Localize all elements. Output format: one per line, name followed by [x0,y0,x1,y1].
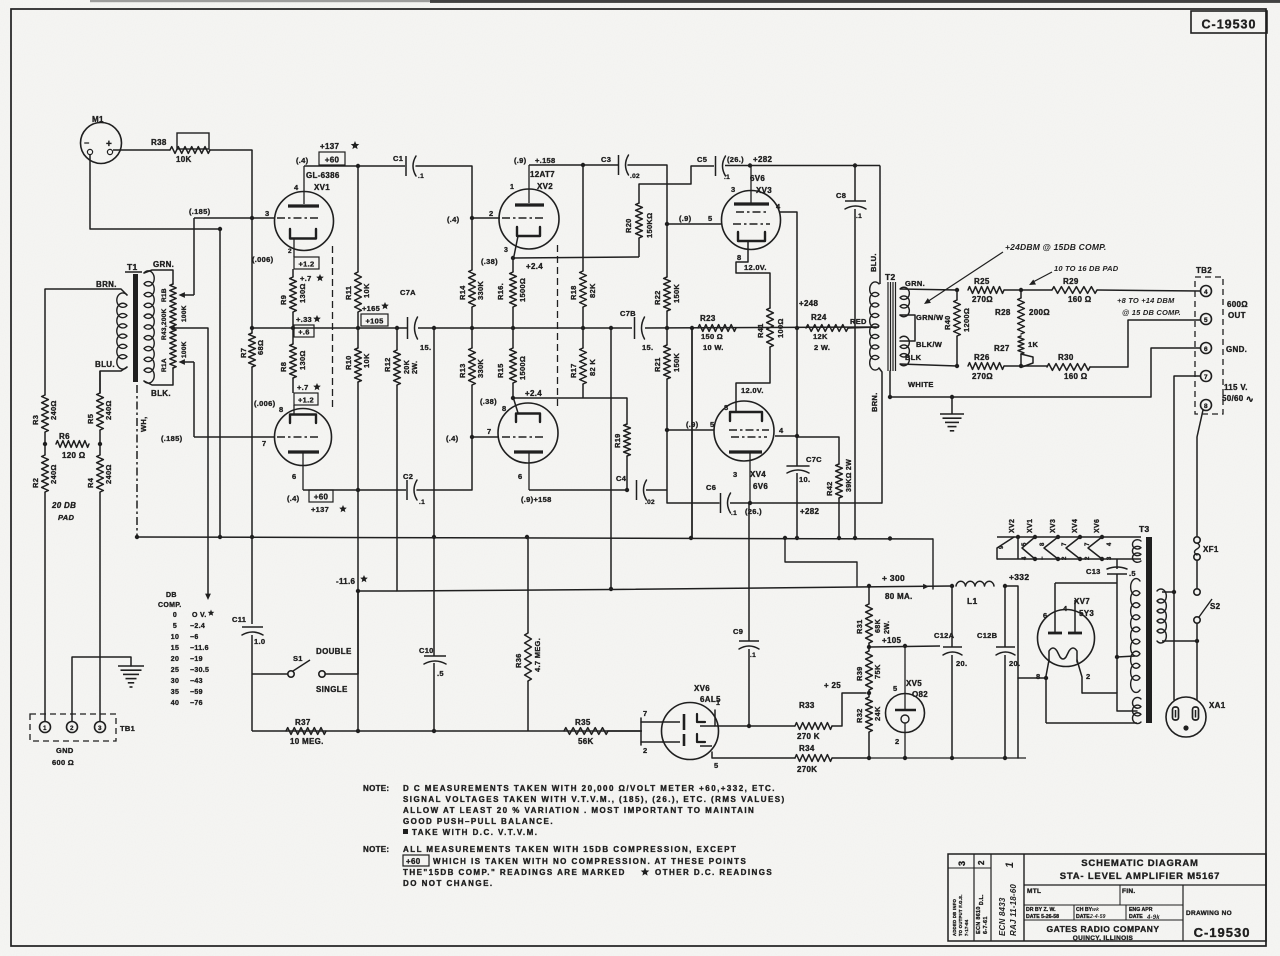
svg-text:+.7: +.7 [297,383,309,392]
resistor R4 [86,455,113,721]
node step [783,536,892,541]
svg-text:160 Ω: 160 Ω [1068,295,1092,304]
TB2 pin 8 [1201,400,1212,411]
svg-text:R17: R17 [569,363,578,378]
svg-text:R20: R20 [624,218,633,233]
resistor R10 [344,348,371,731]
wire R33 to +25 [832,693,866,726]
node XV4 screen [795,434,799,438]
svg-text:XV4: XV4 [1072,519,1079,533]
svg-text:R4: R4 [86,477,95,488]
svg-text:R23: R23 [700,314,716,323]
svg-text:R33: R33 [799,701,815,710]
svg-text:82 K: 82 K [588,359,597,376]
svg-text:DB: DB [166,592,177,599]
wire XV1 plate top [304,165,405,167]
svg-text:4: 4 [1107,542,1113,546]
wire BRN [870,368,882,503]
svg-text:+1.2: +1.2 [298,395,314,404]
wire cathode to R20 [513,257,639,258]
svg-text:7: 7 [487,427,491,436]
svg-text:4: 4 [776,202,781,211]
label (.006) upper [252,255,274,264]
wire R43 tap to comp arrow [173,328,211,600]
resistor R11 [344,272,371,312]
svg-text:100K: 100K [181,341,188,358]
svg-text:+137: +137 [320,142,339,151]
svg-text:4: 4 [294,183,299,192]
svg-text:M1: M1 [92,115,104,124]
tube XV3 [722,191,781,250]
node bus x527 [525,535,529,539]
svg-text:3: 3 [504,247,508,254]
node R22 bus [665,311,669,345]
svg-text:80 MA.: 80 MA. [885,592,913,601]
resistor R14 [458,270,485,307]
node bus x220 [218,535,222,539]
main bus right [645,327,876,328]
svg-text:R22: R22 [653,290,662,305]
svg-text:FIN.: FIN. [1122,888,1135,895]
svg-text:3: 3 [731,185,735,194]
svg-text:.1: .1 [418,173,424,180]
resistor R29 [1052,277,1097,304]
wire M1+ to R38 [113,149,170,151]
svg-text:−2.4: −2.4 [190,623,205,630]
svg-text:+60: +60 [406,857,421,866]
wire cathode lower to R19 [513,397,627,399]
svg-text:R14: R14 [458,285,467,300]
svg-text:(.4): (.4) [447,215,460,224]
switch S2 [1194,589,1221,623]
svg-text:+60: +60 [314,492,329,501]
svg-text:(.4): (.4) [446,434,459,443]
resistor R15 [496,348,527,383]
notes block 1 [363,784,786,837]
svg-text:39KΩ 2W: 39KΩ 2W [846,459,853,492]
tube XV1 lower section [275,409,332,466]
svg-text:10 W.: 10 W. [703,343,724,352]
svg-text:XV3: XV3 [1050,519,1057,533]
node R19 bus [625,488,629,492]
XV2 plate upper [515,165,544,205]
svg-text:R38: R38 [151,138,167,147]
XV4 labels [733,470,768,491]
wire x667 to C6 [667,430,719,503]
XV6 labels [694,684,721,707]
XV3 labels [750,174,772,195]
svg-text:240Ω: 240Ω [104,464,113,484]
heater wiring label XV2 [1009,519,1016,533]
node R23 left [690,326,694,330]
svg-text:2: 2 [1086,672,1090,681]
svg-text:TO OUTPUT F.G.S.: TO OUTPUT F.G.S. [958,894,963,936]
svg-text:R2: R2 [31,478,40,488]
TB2 pin 4 [1201,286,1212,297]
svg-text:.5: .5 [1129,569,1136,578]
wire S1 left [252,673,288,675]
heater top rail [997,536,1141,538]
capacitor C7A [400,288,431,352]
svg-text:3: 3 [957,861,967,866]
tube XV1 upper section [275,192,334,251]
svg-text:XV6: XV6 [1094,519,1101,533]
svg-text:R36: R36 [514,653,523,668]
node R3 R6 [43,432,47,455]
svg-text:NOTE:: NOTE: [363,784,389,793]
drawing number box C-19530 [1191,11,1267,33]
node C12B bottom [1003,756,1007,760]
svg-text:R13: R13 [458,363,467,378]
transformer T2 secondary upper [900,287,909,317]
svg-text:4: 4 [1204,289,1208,296]
XV6 diode right [697,714,715,746]
XV6 input jog [641,709,662,755]
wire +332 jog [1005,586,1018,678]
resistor R26 [968,353,1004,381]
svg-text:∿: ∿ [1246,394,1254,404]
resistor R33 [795,701,832,741]
notes block 2 [363,845,773,888]
svg-text:(.006): (.006) [252,255,274,264]
svg-text:-11.6: -11.6 [336,577,356,586]
DB COMP table [158,592,214,707]
svg-text:20.: 20. [956,659,967,668]
wire TB1 pin2 to ground [72,657,131,721]
svg-text:TB2: TB2 [1196,266,1212,275]
svg-text:+.7: +.7 [300,274,312,283]
wire C3 to R22 column [628,165,667,224]
svg-text:R40: R40 [943,315,952,330]
svg-text:+.6: +.6 [298,327,310,336]
node +248 [795,299,819,330]
svg-text:L1: L1 [967,596,978,606]
svg-text:R15: R15 [496,363,505,378]
node x611 -11.6 [609,587,613,591]
svg-text:R24: R24 [811,313,827,322]
svg-text:BRN.: BRN. [96,280,117,289]
svg-text:8: 8 [1040,542,1046,546]
svg-text:XV5: XV5 [906,679,922,688]
node XV3 plate [748,163,752,167]
resistor R23 [698,314,736,352]
svg-text:.1: .1 [856,213,862,220]
switch S1 [288,647,352,694]
wire R11 column upper [357,166,359,272]
resistor R38 [151,133,210,164]
tube XV2 envelope dashed [557,245,559,407]
svg-text:SINGLE: SINGLE [316,685,348,694]
svg-text:.02: .02 [630,173,640,180]
node x667 grid XV4 [665,428,669,432]
wiper arrow upper [179,218,195,298]
node R32 bottom [867,756,871,760]
XV7 labels [1043,597,1094,620]
svg-text:+165: +165 [362,304,380,313]
wire R29 to TB2 pin4 [1097,290,1200,291]
svg-text:+.158: +.158 [535,156,555,165]
heater XV3 seg [1044,535,1068,561]
svg-text:C13: C13 [1086,567,1101,576]
wire XV7 pin4 lead [1074,600,1076,633]
label +300 [882,573,929,601]
svg-text:R5: R5 [86,414,95,424]
wire GRN [144,260,174,284]
annotation +8 TO +14 DBM [1117,296,1181,317]
svg-text:2: 2 [895,737,899,746]
svg-text:R11: R11 [344,286,353,300]
svg-text:5: 5 [714,761,718,770]
svg-text:C7C: C7C [806,455,822,464]
svg-text:C1: C1 [393,154,403,163]
node R7 top [250,216,254,220]
wire T3 primary top [1162,591,1174,593]
svg-text:270 K: 270 K [797,732,820,741]
T1 secondary winding [144,271,154,383]
node XV5 pin5 [903,644,907,648]
node WHITE [888,395,892,399]
svg-text:C4: C4 [616,474,627,483]
inductor L1 [956,581,994,606]
svg-text:DATE: DATE [1129,914,1143,920]
svg-text:R39: R39 [855,666,864,681]
wire R35 to XV6 [608,730,641,732]
svg-text:R41: R41 [756,323,765,338]
node R43 tap [171,326,175,330]
XV1 cathode lower [279,405,316,423]
svg-text:10.: 10. [799,475,810,484]
svg-text:ENG APR: ENG APR [1129,907,1153,913]
svg-text:R7: R7 [239,348,248,358]
svg-text:BLK.: BLK. [151,389,171,398]
svg-text:6: 6 [1204,346,1208,353]
tube XV2 upper section [499,189,559,249]
svg-text:10 MEG.: 10 MEG. [290,737,324,746]
svg-text:24K: 24K [873,706,882,721]
node R7 bus [250,326,254,330]
wire x583 upper [582,165,584,271]
XV1 grid upper [265,209,318,218]
svg-text:RAJ 11-18-60: RAJ 11-18-60 [1009,884,1018,936]
resistor R36 [514,537,542,731]
svg-text:8: 8 [737,253,741,262]
T1 primary winding [117,293,127,369]
resistor R35 [564,718,608,746]
svg-text:C11: C11 [232,615,246,624]
svg-text:40: 40 [171,700,179,707]
wire C5 to BLU [725,155,880,166]
svg-text:T2: T2 [885,272,896,282]
XV1 labels [294,141,359,192]
label -11.6 [336,575,368,586]
svg-text:(.9): (.9) [514,156,527,165]
svg-text:(.9): (.9) [679,214,692,223]
svg-text:O82: O82 [912,690,928,699]
svg-text:10: 10 [171,634,179,641]
svg-text:S1: S1 [293,654,303,663]
node x611 bus [609,326,613,330]
svg-text:+282: +282 [753,155,772,164]
svg-text:WHICH IS TAKEN WITH NO COMP: WHICH IS TAKEN WITH NO COMPRESSION. AT T… [433,857,747,866]
resistor R25 [968,277,1004,304]
svg-text:2: 2 [1062,556,1068,560]
capacitor C4 [616,474,655,506]
svg-text:S2: S2 [1210,602,1221,611]
svg-text:4.7 MEG.: 4.7 MEG. [533,638,542,672]
heater wiring label XV1 [1027,519,1034,533]
capacitor C2 [403,472,425,506]
svg-text:5: 5 [1204,317,1208,324]
wire S2 down [1196,623,1198,641]
svg-text:WHITE: WHITE [908,380,934,389]
svg-text:35: 35 [171,689,179,696]
tube XV5 [886,694,925,733]
wire grid XV1 pin7 [194,436,274,438]
svg-text:XV2: XV2 [1009,519,1016,533]
svg-text:ADDED DB INFO: ADDED DB INFO [952,898,957,936]
svg-text:C-19530: C-19530 [1202,18,1257,32]
capacitor C9 [733,503,759,726]
svg-text:C-19530: C-19530 [1194,925,1251,940]
wire XF1 to S2 [1196,560,1198,589]
T3 rectifier winding [1132,697,1141,723]
wire to C5 [691,165,714,167]
resistor R8 [279,344,307,378]
svg-text:4: 4 [1063,604,1068,613]
heater XV4 seg [1066,535,1091,561]
svg-text:CH BY: CH BY [1076,907,1093,913]
node R42 bus [837,536,841,540]
wire XV2 grid col mid [471,218,473,437]
svg-text:15.: 15. [642,343,653,352]
wire grid XV1 pin3 [194,217,275,219]
wire R34 right [832,757,869,759]
svg-text:R1A: R1A [161,358,168,372]
node M1 return [218,227,222,231]
svg-text:2: 2 [288,248,292,255]
wire WHITE [890,371,934,397]
wire R23 left col [691,328,693,538]
resistor R28 [995,290,1050,334]
svg-text:DR BY Z. W.: DR BY Z. W. [1026,907,1056,913]
wire pin8 to +332 [1018,678,1046,758]
svg-text:7: 7 [643,709,647,718]
terminal board TB1 [30,714,135,741]
svg-text:+ 25: + 25 [824,681,841,690]
wire BLK [144,368,173,398]
fuse XF1 [1194,537,1219,560]
node R31 +300 [867,584,871,588]
ground symbol output [940,397,964,431]
T2 core [885,272,896,371]
node C12A bottom [950,756,954,760]
XV3 screen [736,211,767,213]
wire C1 to XV2 grid [416,166,472,218]
svg-text:−19: −19 [190,656,203,663]
svg-text:QUINCY, ILLINOIS: QUINCY, ILLINOIS [1073,935,1134,942]
label 20 DB PAD [51,501,76,522]
wire R38 column [251,150,253,328]
svg-text:GL-6386: GL-6386 [306,171,340,180]
node x472 grid lower [446,434,474,443]
capacitor C12A [934,586,967,758]
bottom bus right [869,757,1026,759]
svg-text:R27: R27 [994,344,1010,353]
XV6 diode left [662,714,684,746]
wire WH shield [137,385,148,537]
svg-text:7-17-64: 7-17-64 [964,919,969,936]
tube XV7 [1038,610,1095,667]
svg-text:R21: R21 [653,357,662,372]
XV1 cathode upper [288,229,316,257]
svg-text:12.0V.: 12.0V. [741,386,764,395]
svg-text:GRN/W: GRN/W [916,313,944,322]
svg-text:12AT7: 12AT7 [530,170,555,179]
T3 HV winding [1131,579,1140,693]
svg-text:−30.5: −30.5 [190,667,209,674]
svg-text:DATE 5-26-58: DATE 5-26-58 [1026,914,1059,920]
svg-text:6V6: 6V6 [753,482,768,491]
svg-text:R35: R35 [575,718,591,727]
wire GRN/W BLK/W tap [900,313,944,349]
resistor R21 [653,345,681,430]
wire R38 to grid bus [210,149,252,151]
heater bottom rail [997,558,1141,560]
svg-text:T1: T1 [127,262,138,272]
svg-text:2 W.: 2 W. [814,343,830,352]
svg-text:SIGNAL VOLTAGES TAKEN WITH: SIGNAL VOLTAGES TAKEN WITH V.T.V.M., (18… [403,795,786,804]
svg-text:330K: 330K [476,281,485,300]
resistor R31 [855,586,891,643]
svg-text:600Ω: 600Ω [1227,300,1248,309]
svg-text:600 Ω: 600 Ω [52,758,74,767]
transformer T2 secondary lower [900,336,909,366]
svg-text:DO NOT CHANGE.: DO NOT CHANGE. [403,879,494,888]
XV7 pin8 [1036,660,1049,681]
svg-text:.5: .5 [437,669,444,678]
wire -11.6 [358,590,397,592]
svg-text:6: 6 [1043,611,1047,620]
svg-text:MTL: MTL [1027,888,1041,895]
resistor R24 [806,313,848,352]
XV1 plate upper [288,166,319,206]
svg-text:15: 15 [171,645,179,652]
node XV7 pin8 [1044,676,1048,680]
resistor R41 [756,308,785,347]
svg-text:2W.: 2W. [410,361,419,374]
node R12 bus [395,326,399,330]
svg-text:+: + [106,139,112,150]
svg-text:TB1: TB1 [120,724,135,733]
svg-text:150 Ω: 150 Ω [701,332,723,341]
svg-text:2W.: 2W. [882,621,891,634]
svg-text:BLK: BLK [905,353,922,362]
svg-text:8: 8 [1204,403,1208,410]
svg-text:R26: R26 [974,353,990,362]
svg-text:C6: C6 [706,483,716,492]
heater XV2 seg [1016,535,1028,560]
annotation +24DBM [924,242,1106,304]
svg-text:GND: GND [56,746,74,755]
svg-text:C2: C2 [403,472,413,481]
resistor R7 [239,328,265,537]
resistor R34 [795,744,832,774]
svg-text:+1.2: +1.2 [298,259,314,268]
svg-text:20: 20 [171,656,179,663]
svg-text:3: 3 [733,470,737,479]
node XV2 cathode [481,256,543,271]
labels (.4)+60 lower [287,490,347,514]
